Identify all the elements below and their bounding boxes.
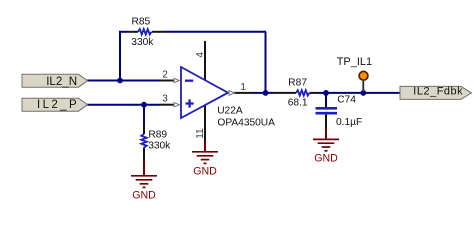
svg-text:2: 2: [162, 70, 168, 81]
svg-text:GND: GND: [314, 153, 338, 165]
svg-text:R89: R89: [148, 129, 167, 140]
svg-text:OPA4350UA: OPA4350UA: [217, 117, 275, 128]
svg-text:330k: 330k: [148, 141, 171, 152]
svg-text:U22A: U22A: [217, 106, 243, 117]
svg-text:GND: GND: [132, 189, 156, 201]
svg-text:IL2_N: IL2_N: [46, 75, 77, 88]
svg-text:4: 4: [195, 52, 206, 58]
svg-text:C74: C74: [337, 94, 356, 105]
svg-text:IL2_P: IL2_P: [37, 99, 79, 111]
svg-text:0.1µF: 0.1µF: [336, 117, 362, 128]
svg-text:R87: R87: [288, 78, 307, 89]
svg-text:R85: R85: [132, 17, 151, 28]
svg-text:IL2_Fdbk: IL2_Fdbk: [413, 85, 463, 97]
svg-text:TP_IL1: TP_IL1: [337, 56, 372, 68]
svg-text:3: 3: [162, 93, 168, 104]
svg-text:330k: 330k: [131, 37, 154, 48]
svg-text:68.1: 68.1: [288, 98, 308, 109]
svg-text:11: 11: [195, 128, 206, 139]
svg-text:GND: GND: [193, 166, 217, 178]
svg-text:1: 1: [240, 82, 246, 93]
